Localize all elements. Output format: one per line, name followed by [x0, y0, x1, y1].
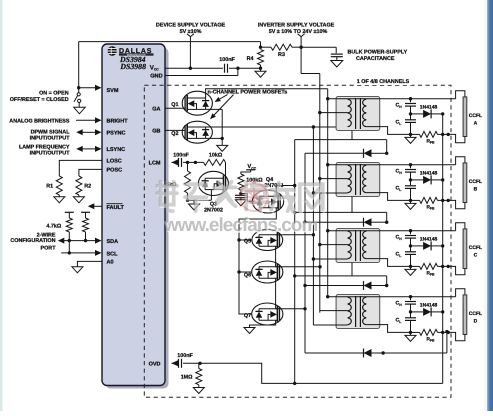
svg-text:ANALOG BRIGHTNESS: ANALOG BRIGHTNESS [9, 118, 70, 124]
svg-text:4.7kΩ: 4.7kΩ [46, 224, 61, 230]
svg-text:DEVICE SUPPLY VOLTAGE: DEVICE SUPPLY VOLTAGE [156, 23, 226, 29]
svg-text:INVERTER SUPPLY VOLTAGE: INVERTER SUPPLY VOLTAGE [258, 23, 335, 29]
svg-text:FAULT: FAULT [107, 205, 125, 211]
svg-text:1N4148: 1N4148 [420, 170, 438, 176]
svg-text:ON = OPEN: ON = OPEN [39, 91, 69, 97]
svg-text:GA: GA [152, 106, 160, 112]
svg-text:OFF/RESET = CLOSED: OFF/RESET = CLOSED [10, 97, 69, 103]
svg-text:A0: A0 [107, 260, 114, 266]
svg-text:5V ±10%: 5V ±10% [180, 29, 202, 35]
svg-text:BULK POWER-SUPPLY: BULK POWER-SUPPLY [348, 50, 408, 56]
svg-text:1N4148: 1N4148 [420, 104, 438, 110]
svg-text:INPUT/OUTPUT: INPUT/OUTPUT [30, 151, 71, 157]
svg-text:PSYNC: PSYNC [107, 130, 126, 136]
svg-text:Q1: Q1 [171, 102, 178, 108]
svg-text:D: D [474, 319, 478, 325]
svg-text:GND: GND [150, 73, 162, 79]
svg-text:CCFL: CCFL [469, 311, 482, 317]
svg-text:SDA: SDA [107, 239, 119, 245]
svg-text:CCFL: CCFL [469, 245, 482, 251]
svg-text:CONFIGURATION: CONFIGURATION [10, 238, 55, 244]
svg-text:1MΩ: 1MΩ [181, 375, 193, 381]
svg-text:POSC: POSC [107, 168, 123, 174]
svg-text:1N4148: 1N4148 [420, 302, 438, 308]
svg-text:Q5: Q5 [244, 238, 251, 244]
svg-text:C: C [474, 253, 478, 259]
svg-text:GB: GB [152, 129, 160, 135]
svg-text:www.elecfans.com: www.elecfans.com [163, 215, 317, 236]
svg-text:R3: R3 [278, 52, 285, 58]
svg-text:100nF: 100nF [219, 57, 235, 63]
svg-text:100nF: 100nF [173, 152, 189, 158]
svg-text:CCFL: CCFL [469, 113, 482, 119]
svg-text:OVD: OVD [149, 362, 161, 368]
svg-text:B: B [474, 187, 478, 193]
svg-text:A: A [474, 121, 478, 127]
svg-text:LSYNC: LSYNC [107, 147, 126, 153]
svg-text:2N7002: 2N7002 [204, 207, 223, 213]
svg-text:R1: R1 [46, 183, 53, 189]
svg-text:Q7: Q7 [244, 313, 251, 319]
svg-text:INPUT/OUTPUT: INPUT/OUTPUT [30, 135, 71, 141]
svg-text:Q4: Q4 [266, 177, 273, 183]
svg-text:5V ± 10% TO 24V ±10%: 5V ± 10% TO 24V ±10% [269, 29, 328, 35]
svg-text:1 OF 4/8 CHANNELS: 1 OF 4/8 CHANNELS [357, 79, 410, 85]
svg-text:SVM: SVM [107, 88, 119, 94]
svg-text:CAPACITANCE: CAPACITANCE [356, 56, 395, 62]
svg-text:n-CHANNEL POWER MOSFETs: n-CHANNEL POWER MOSFETs [208, 90, 288, 96]
svg-text:BRIGHT: BRIGHT [107, 118, 129, 124]
svg-text:DS3988: DS3988 [119, 62, 146, 71]
svg-text:LCM: LCM [149, 161, 161, 167]
svg-text:LOSC: LOSC [107, 159, 122, 165]
svg-text:1N4148: 1N4148 [420, 236, 438, 242]
svg-text:CCFL: CCFL [469, 179, 482, 185]
svg-text:Q2: Q2 [171, 131, 178, 137]
svg-text:100nF: 100nF [177, 353, 193, 359]
svg-text:Q6: Q6 [244, 272, 251, 278]
svg-text:R2: R2 [84, 183, 91, 189]
svg-text:SCL: SCL [107, 251, 119, 257]
svg-text:PORT: PORT [41, 245, 57, 251]
svg-text:10kΩ: 10kΩ [209, 152, 223, 158]
svg-text:R4: R4 [247, 56, 254, 62]
